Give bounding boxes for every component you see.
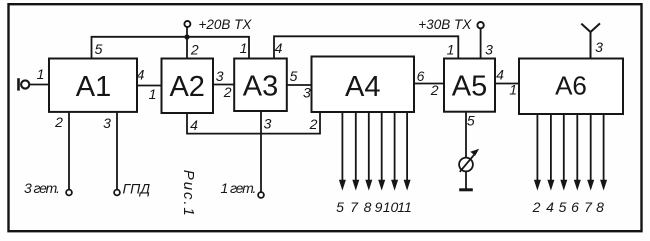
svg-text:7: 7	[584, 199, 593, 215]
svg-text:8: 8	[364, 199, 372, 215]
wire A5 pin5 to meter	[465, 112, 467, 158]
wire +20V terminal drop to A2 pin2	[186, 27, 188, 58]
svg-text:2: 2	[309, 116, 318, 132]
svg-text:11: 11	[397, 199, 412, 215]
svg-text:1: 1	[37, 66, 45, 82]
svg-text:1 гет.: 1 гет.	[221, 180, 256, 196]
svg-text:4: 4	[137, 67, 145, 83]
wire A4 pin 5 arrow	[341, 112, 343, 181]
svg-text:2: 2	[532, 199, 541, 215]
svg-text:4: 4	[546, 199, 554, 215]
svg-text:3: 3	[485, 41, 493, 57]
block A2	[162, 59, 214, 114]
wire A1 pin4 to A2 pin1	[137, 85, 162, 87]
terminal +30V TX	[477, 22, 483, 28]
wire A4 pin 11 arrow	[406, 112, 408, 181]
block A4	[312, 57, 415, 113]
svg-text:6: 6	[417, 68, 425, 84]
wire A4 pin 10 arrow	[394, 112, 396, 181]
svg-text:А4: А4	[345, 71, 380, 103]
terminal GPD	[114, 190, 120, 196]
svg-text:2: 2	[190, 42, 199, 58]
svg-text:3: 3	[103, 115, 111, 131]
svg-text:1: 1	[509, 82, 517, 98]
ground	[459, 188, 473, 191]
svg-text:А5: А5	[452, 71, 487, 103]
block A3	[234, 59, 287, 112]
svg-text:А2: А2	[169, 71, 204, 103]
svg-text:3: 3	[264, 116, 272, 132]
wire A3 pin5 to A4 pin3	[287, 84, 312, 86]
terminal 1 het	[258, 192, 264, 198]
microphone BM	[17, 78, 29, 90]
wire mic to A1 pin1	[29, 84, 49, 86]
wire A5 pin4 to A6 pin1	[495, 83, 519, 85]
svg-text:6: 6	[571, 199, 579, 215]
wire A6 pin 2 arrow	[536, 114, 538, 182]
wire A6 pin 6 arrow	[576, 114, 578, 182]
svg-text:А3: А3	[243, 71, 278, 103]
svg-text:4: 4	[496, 67, 504, 83]
wire +20V bus: A1 pin5 to A3 pin1	[92, 37, 250, 59]
wire A4 pin2 down	[319, 112, 321, 134]
svg-text:4: 4	[190, 117, 198, 133]
svg-text:1: 1	[149, 86, 157, 102]
svg-text:5: 5	[290, 68, 298, 84]
svg-text:8: 8	[596, 199, 604, 215]
wire A2 pin4 down	[186, 113, 188, 134]
svg-text:Рис.1: Рис.1	[180, 170, 197, 218]
wire 1 het bus horizontal	[186, 133, 321, 135]
wire A3 pin3 down to 1 het terminal	[260, 111, 262, 192]
wire A6 pin 7 arrow	[590, 114, 592, 182]
svg-text:А1: А1	[76, 71, 111, 103]
wire meter to ground	[465, 171, 467, 188]
svg-text:5: 5	[336, 199, 344, 215]
svg-text:2: 2	[430, 82, 439, 98]
svg-text:2: 2	[223, 84, 232, 100]
svg-text:1: 1	[240, 40, 248, 56]
wire A1 pin3 to GPD terminal	[116, 112, 118, 190]
meter PA1	[459, 158, 473, 172]
block A6	[519, 59, 623, 115]
svg-text:+30В ТХ: +30В ТХ	[418, 17, 472, 32]
junction dot +20V bus	[184, 34, 189, 39]
terminal +20V TX	[184, 21, 190, 27]
svg-text:2: 2	[54, 114, 63, 130]
terminal 3 het	[66, 190, 72, 196]
wire A4 pin 9 arrow	[381, 112, 383, 181]
block A5	[444, 59, 495, 112]
wire A4 pin 7 arrow	[355, 112, 357, 181]
wire A4 pin6 to A5 pin2	[414, 83, 444, 85]
svg-text:3: 3	[595, 39, 603, 55]
svg-text:5: 5	[467, 113, 475, 129]
wire bus A3 pin4 to A5 pin1	[274, 36, 458, 58]
block A1	[49, 59, 137, 112]
wire A1 pin2 to 3 het terminal	[68, 112, 70, 190]
svg-text:А6: А6	[555, 71, 587, 101]
wire A4 pin 8 arrow	[368, 112, 370, 181]
svg-text:4: 4	[275, 40, 283, 56]
wire A6 pin 4 arrow	[550, 114, 552, 182]
svg-text:5: 5	[559, 199, 567, 215]
wire A6 pin 8 arrow	[603, 114, 605, 182]
svg-text:9: 9	[375, 199, 383, 215]
svg-text:10: 10	[383, 199, 399, 215]
svg-text:5: 5	[95, 41, 103, 57]
svg-text:3 гет.: 3 гет.	[24, 180, 59, 196]
svg-text:7: 7	[350, 199, 359, 215]
antenna WA1	[581, 23, 600, 58]
svg-text:ГПД: ГПД	[123, 181, 151, 197]
svg-text:3: 3	[303, 85, 311, 101]
wire A6 pin 5 arrow	[563, 114, 565, 182]
svg-text:3: 3	[216, 68, 224, 84]
A4 output arrows pins 5,7,8,9,10,11	[342, 112, 407, 181]
svg-text:+20В ТХ: +20В ТХ	[199, 17, 253, 32]
wire A2 pin3 to A3 pin2	[213, 84, 234, 86]
wire +30V to A5 pin3	[480, 29, 482, 59]
A6 output arrows pins 2,4,5,6,7,8	[537, 114, 603, 182]
svg-text:1: 1	[447, 41, 455, 57]
